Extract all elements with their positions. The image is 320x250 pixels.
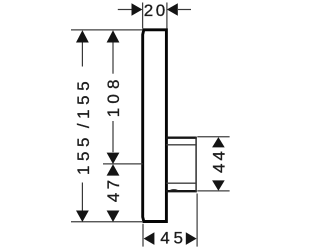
dimension 155/155 arrow up: [76, 30, 89, 42]
bottom extension line from plate bottom-left: [71, 221, 143, 223]
dimension 45 left arrow: [144, 232, 155, 245]
dimension 20 left arrow: [132, 3, 143, 16]
svg-text:108: 108: [104, 80, 123, 118]
dimension 108 line lower segment: [112, 121, 114, 152]
valve box bottom bump detail: [170, 189, 177, 192]
dimension 155/155 line upper segment: [81, 41, 83, 67]
valve box bottom edge: [166, 190, 197, 192]
dimension 20 left extension line: [142, 3, 144, 29]
dimension 108 arrow down: [107, 153, 120, 164]
top extension line from plate top-left: [71, 29, 143, 31]
dimension 108 arrow up: [107, 30, 120, 42]
middle extension line at valve centerline: [103, 163, 143, 165]
dimension 44 top extension line: [197, 136, 229, 138]
dimension 20 left stub: [118, 9, 132, 11]
dimension 20 right extension line: [166, 3, 168, 29]
dimension 45 left extension line: [142, 224, 144, 247]
dimension 155/155 arrow down: [76, 211, 89, 223]
escutcheon plate outline: [143, 30, 167, 222]
dimension 20 right arrow: [167, 3, 178, 16]
valve box inner line upper: [166, 144, 195, 146]
valve box inner line lower: [166, 182, 195, 184]
dimension 47 arrow down: [107, 211, 120, 223]
dimension 44 bottom extension line: [197, 190, 229, 192]
valve box right edge: [195, 137, 197, 192]
dimension 45 right arrow: [186, 232, 197, 245]
dimension 20 right stub: [178, 9, 191, 11]
dimension 47 arrow up: [107, 164, 120, 175]
dimension 45 right extension line: [196, 194, 198, 247]
dimension 108 line upper segment: [112, 42, 114, 74]
dimension 44 arrow up: [212, 137, 225, 147]
dimension 44 arrow down: [212, 180, 225, 190]
svg-text:155/155: 155/155: [74, 81, 93, 175]
dimension 155/155 line lower segment: [81, 183, 83, 212]
valve box top edge: [166, 137, 197, 139]
